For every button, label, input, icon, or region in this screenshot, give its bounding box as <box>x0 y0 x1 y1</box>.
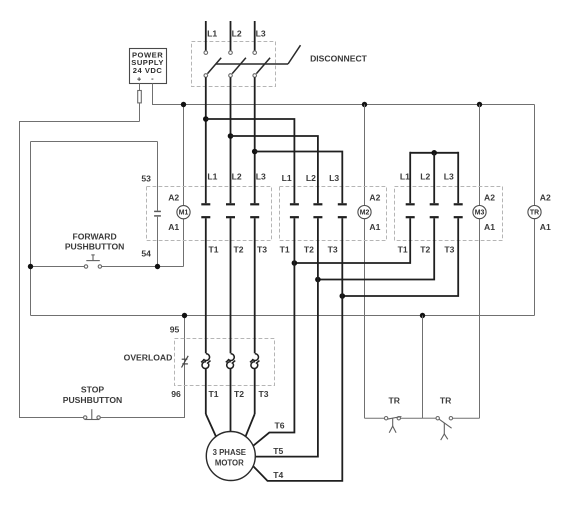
wire: M2 coil branch <box>364 105 366 206</box>
svg-text:T3: T3 <box>444 244 454 254</box>
disconnect handle and link bar <box>216 45 301 64</box>
coil M3 <box>473 206 486 219</box>
disconnect switch pole 3 <box>253 51 270 77</box>
svg-text:T1: T1 <box>280 244 290 254</box>
wire L3 to M1 contact <box>254 77 256 203</box>
wire: M3-T1 to M2-T1 <box>294 218 410 263</box>
svg-text:M1: M1 <box>179 210 189 217</box>
dashed box: disconnect <box>192 42 276 87</box>
power supply PS1 <box>130 49 167 84</box>
wire: forward pushbutton row <box>31 266 85 268</box>
svg-text:T3: T3 <box>328 244 338 254</box>
wire: 24V common bus <box>184 104 535 106</box>
svg-text:T4: T4 <box>273 470 283 480</box>
wire: M1-T3 through overload to motor <box>254 218 256 353</box>
coil M2 <box>358 206 371 219</box>
wire L3 incoming <box>254 21 256 51</box>
node: M2-T1 / M3-T1 <box>292 260 298 266</box>
disconnect switch pole 2 <box>229 51 246 77</box>
wire: M3-L1 lead <box>409 152 411 203</box>
dashed box: contactor M1 <box>147 187 272 241</box>
svg-text:L3: L3 <box>256 171 266 181</box>
wire L2 to M1 contact <box>230 77 232 203</box>
wire: stop pushbutton to overload 96 <box>100 316 184 418</box>
node: L3 / M2-L3 branch <box>252 149 258 155</box>
overload trip contact 95-96 <box>182 356 189 368</box>
wire: M1 coil circuit <box>183 219 185 267</box>
svg-text:TR: TR <box>440 396 452 406</box>
svg-text:T1: T1 <box>208 389 218 399</box>
contact M1 L1-T1 <box>201 204 210 217</box>
svg-text:A2: A2 <box>484 192 495 202</box>
node: star bar / M3-L2 <box>431 150 437 156</box>
pushbutton: STOP (NC) <box>84 409 101 419</box>
wire: left control branch vertical <box>30 142 32 316</box>
svg-text:T3: T3 <box>257 244 267 254</box>
svg-text:DISCONNECT: DISCONNECT <box>310 54 368 64</box>
overload heater T1 <box>201 354 210 369</box>
svg-text:L2: L2 <box>420 171 430 181</box>
wire: M1-T2 through overload to motor <box>230 218 232 353</box>
wire: L2 branch to M2 bank <box>231 136 318 203</box>
coil TR <box>528 206 541 219</box>
svg-text:TR: TR <box>530 210 539 217</box>
wire: M3-T3 to M2-T3 <box>342 218 458 296</box>
wire: M2-T1 to motor T6 <box>253 218 294 445</box>
wire L1 to M1 contact <box>205 77 207 203</box>
node: junction 95 wire / control line <box>182 313 187 318</box>
dashed box: contactor M2 <box>280 187 387 241</box>
svg-text:FORWARD: FORWARD <box>72 231 116 241</box>
svg-text:L3: L3 <box>256 28 266 38</box>
node: bus / M3 coil <box>477 102 482 107</box>
svg-text:T2: T2 <box>233 244 243 254</box>
svg-text:STOP: STOP <box>81 385 105 395</box>
svg-text:24 VDC: 24 VDC <box>133 66 163 75</box>
svg-text:TR: TR <box>388 396 400 406</box>
svg-text:T6: T6 <box>274 420 284 430</box>
svg-text:M2: M2 <box>360 210 370 217</box>
wire: seal-in loop top <box>31 141 158 143</box>
svg-text:L1: L1 <box>207 171 217 181</box>
contact M2 L3-T3 <box>338 204 347 217</box>
svg-text:A1: A1 <box>369 222 380 232</box>
contact M3 L1-T1 <box>406 204 415 217</box>
wire: M3-L3 lead <box>457 152 459 203</box>
svg-text:T2: T2 <box>234 389 244 399</box>
svg-text:A2: A2 <box>540 192 551 202</box>
svg-text:L1: L1 <box>400 171 410 181</box>
svg-text:A2: A2 <box>369 192 380 202</box>
contact M1 L3-T3 <box>250 204 259 217</box>
svg-text:95: 95 <box>170 325 180 335</box>
contact M3 L3-T3 <box>454 204 463 217</box>
node: junction TR contact branch / control line <box>420 313 425 318</box>
dashed box: contactor M3 <box>395 187 503 241</box>
svg-text:T3: T3 <box>258 389 268 399</box>
svg-text:-: - <box>151 74 154 83</box>
contact M1 L2-T2 <box>226 204 235 217</box>
node: L2 / M2-L2 branch <box>228 133 234 139</box>
svg-text:T1: T1 <box>398 244 408 254</box>
wire: M1-T1 through overload to motor <box>205 218 207 353</box>
timer contact row wires <box>365 417 385 419</box>
node: bus / M1 coil <box>181 102 186 107</box>
wire: M3-L2 lead <box>433 153 435 203</box>
svg-text:PUSHBUTTON: PUSHBUTTON <box>65 242 125 252</box>
wire L1 incoming <box>205 21 207 51</box>
node: forward row / aux contact <box>155 264 160 269</box>
overload heater T3 <box>250 354 259 369</box>
contact M1 aux 53-54 <box>154 211 161 216</box>
svg-text:T1: T1 <box>208 244 218 254</box>
svg-text:L1: L1 <box>207 28 217 38</box>
node: L1 / M2-L1 branch <box>203 116 209 122</box>
contact M3 L2-T2 <box>430 204 439 217</box>
svg-text:T5: T5 <box>273 446 283 456</box>
svg-text:96: 96 <box>171 389 181 399</box>
svg-text:54: 54 <box>141 249 151 259</box>
svg-text:MOTOR: MOTOR <box>215 458 244 467</box>
svg-text:53: 53 <box>141 173 151 183</box>
wire: M2-T3 to motor T4 <box>253 218 342 481</box>
svg-text:+: + <box>137 75 142 84</box>
svg-text:L2: L2 <box>232 28 242 38</box>
timer contact TR (NC, on-delay) <box>384 417 401 433</box>
svg-text:A1: A1 <box>540 222 551 232</box>
fuse F1 <box>138 84 142 122</box>
wire: L3 branch to M2 bank <box>255 152 343 204</box>
node: M2-T3 / M3-T3 <box>340 293 346 299</box>
contact M2 L2-T2 <box>313 204 322 217</box>
wire: M3-T2 to M2-T2 <box>318 218 434 279</box>
svg-text:L1: L1 <box>282 173 292 183</box>
wire: control line 95 to TR coil A1 <box>31 315 535 317</box>
pushbutton: FORWARD (NO) <box>84 255 101 268</box>
node: bus / M2 coil <box>362 102 367 107</box>
svg-text:M3: M3 <box>475 210 485 217</box>
svg-text:A1: A1 <box>484 222 495 232</box>
disconnect switch pole 1 <box>204 51 221 77</box>
overload heater T2 <box>226 354 235 369</box>
motor: 3 phase motor <box>206 432 255 481</box>
svg-text:T2: T2 <box>304 244 314 254</box>
node: forward row / left branch <box>28 264 33 269</box>
svg-text:L3: L3 <box>444 171 454 181</box>
node: M2-T2 / M3-T2 <box>315 277 321 283</box>
dashed box: overload <box>175 339 275 386</box>
wire L2 incoming <box>230 21 232 51</box>
wire: M2-T2 to motor T5 <box>255 218 318 456</box>
wire: M3 star bar <box>410 152 458 154</box>
wire: aux contact upper lead 53 <box>157 142 159 211</box>
svg-text:L3: L3 <box>329 173 339 183</box>
wire: L1 branch to M2 bank <box>206 119 295 203</box>
wire: +24V left rail from fuse down to stop pushbutton <box>20 122 140 418</box>
svg-text:3 PHASE: 3 PHASE <box>213 448 246 457</box>
wire: PS minus to bus <box>153 84 184 105</box>
svg-text:T2: T2 <box>420 244 430 254</box>
wire: aux contact lower lead 54 <box>157 217 159 267</box>
svg-text:L2: L2 <box>232 171 242 181</box>
svg-text:PUSHBUTTON: PUSHBUTTON <box>63 395 123 405</box>
svg-text:OVERLOAD: OVERLOAD <box>124 353 173 363</box>
wire: TR coil branch <box>534 105 536 206</box>
svg-text:A2: A2 <box>168 192 179 202</box>
timer contact TR (NO, on-delay) <box>436 417 453 441</box>
svg-text:L2: L2 <box>306 173 316 183</box>
wire: M3 coil branch <box>479 105 481 206</box>
contact M2 L1-T1 <box>290 204 299 217</box>
svg-text:A1: A1 <box>168 222 179 232</box>
coil M1 <box>177 206 190 219</box>
